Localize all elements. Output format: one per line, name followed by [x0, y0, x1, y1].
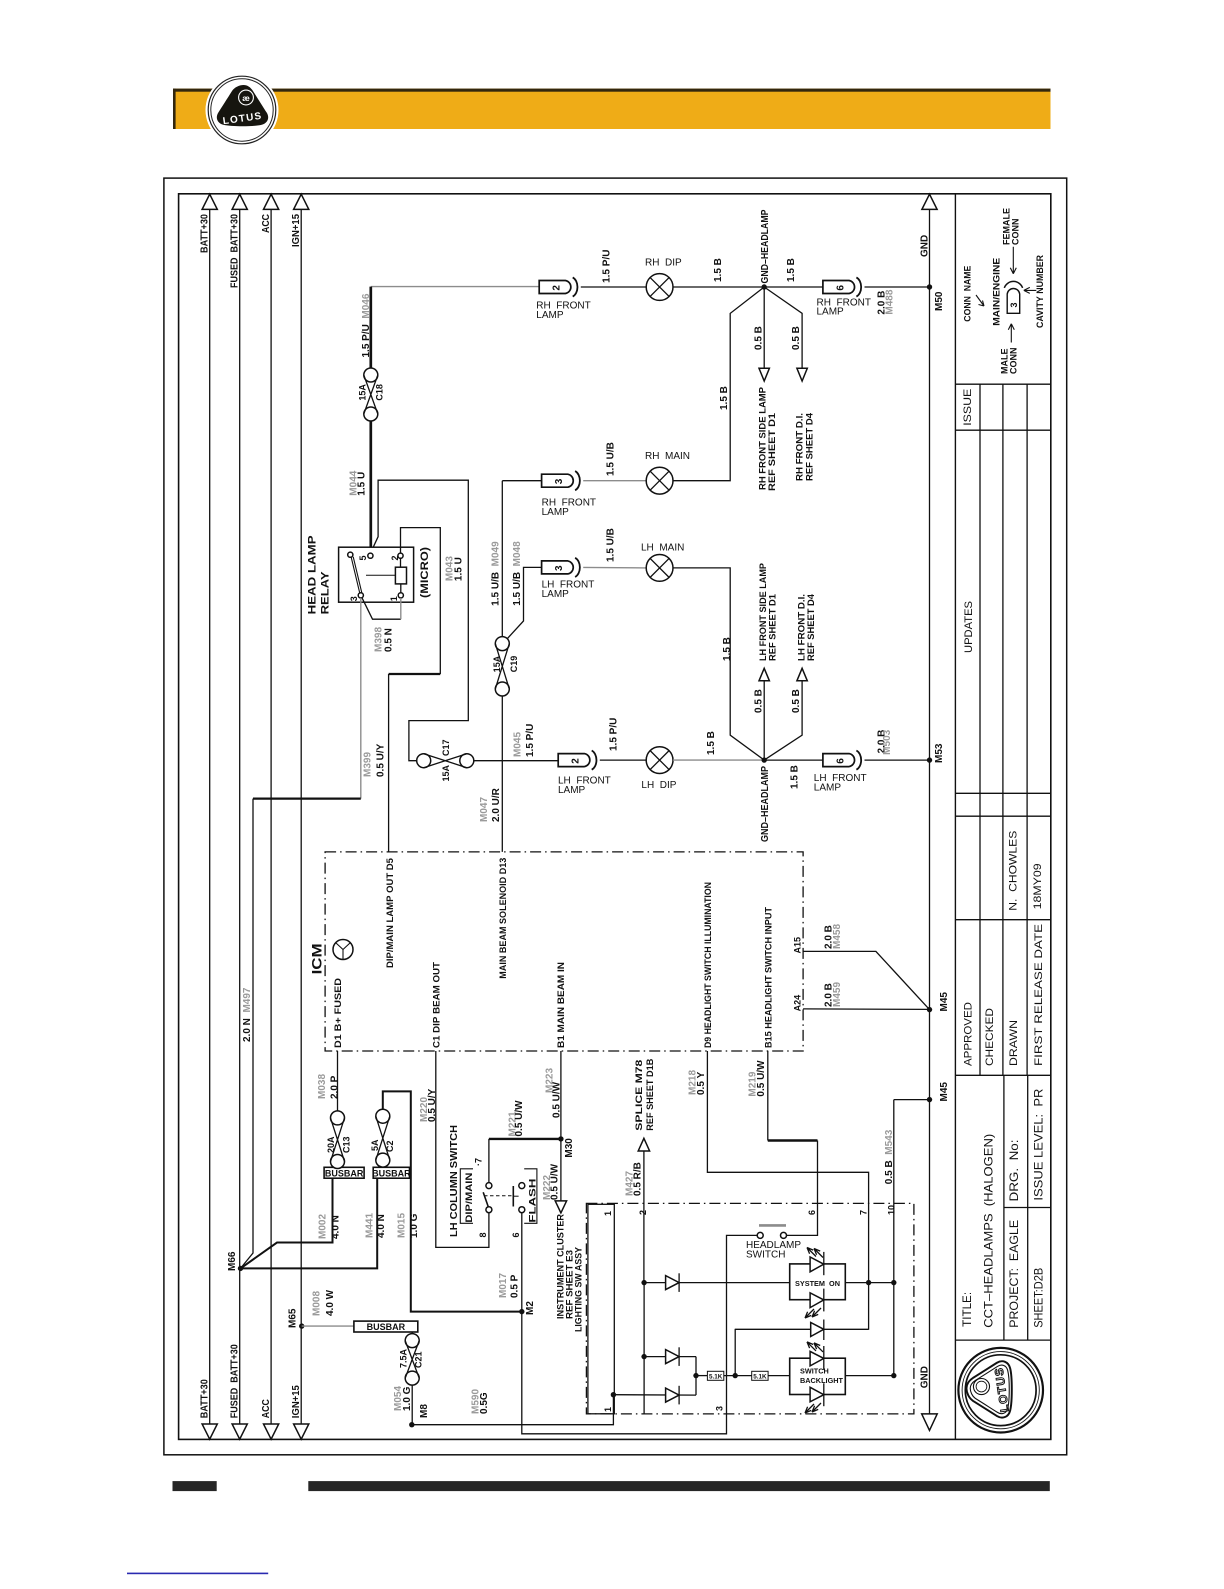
- svg-text:LAMP: LAMP: [817, 307, 845, 318]
- svg-text:M399: M399: [363, 752, 374, 777]
- GND top arrow: [922, 194, 937, 209]
- svg-text:M008: M008: [311, 1291, 322, 1316]
- svg-text:0.5 U/W: 0.5 U/W: [514, 1100, 525, 1137]
- svg-text:0.5G: 0.5G: [479, 1392, 490, 1414]
- arrow into instrument cluster: [555, 1201, 566, 1213]
- svg-text:0.5 B: 0.5 B: [791, 689, 802, 713]
- wire M017 flash pin6 to M2: [521, 1213, 523, 1312]
- svg-text:M458: M458: [832, 924, 843, 949]
- svg-text:1.5 B: 1.5 B: [722, 637, 733, 661]
- wire node to RH front DI ref: [764, 287, 802, 368]
- svg-text:·7: ·7: [473, 1158, 483, 1166]
- LED below SYSTEM ON: [810, 1293, 824, 1308]
- svg-text:1.5 B: 1.5 B: [706, 731, 717, 755]
- svg-text:1.5 B: 1.5 B: [719, 386, 730, 410]
- svg-text:RH MAIN: RH MAIN: [645, 451, 690, 462]
- svg-text:BUSBAR: BUSBAR: [372, 1168, 411, 1178]
- svg-text:0.5 U/W: 0.5 U/W: [756, 1060, 767, 1097]
- svg-text:C19: C19: [509, 656, 519, 673]
- cluster connector strip box: [588, 1204, 614, 1414]
- svg-text:1.5 U/B M048: 1.5 U/B M048: [512, 541, 523, 606]
- svg-text:1.5 U/B: 1.5 U/B: [606, 442, 617, 476]
- lamp RH DIP: [646, 274, 673, 301]
- fuse C21 7.5A: [411, 1332, 413, 1334]
- svg-text:BATT+30: BATT+30: [200, 214, 211, 253]
- lamp LH DIP: [646, 747, 673, 774]
- svg-text:2: 2: [552, 285, 563, 291]
- drawing inner border: [179, 194, 1051, 1440]
- svg-text:REF SHEET D4: REF SHEET D4: [806, 594, 816, 661]
- relay coil: [395, 567, 406, 584]
- svg-text:M45: M45: [939, 1082, 950, 1102]
- svg-text:BUSBAR: BUSBAR: [367, 1322, 406, 1332]
- arrow LH front DI: [797, 668, 807, 681]
- svg-text:M8: M8: [419, 1404, 430, 1418]
- node M30: [558, 1136, 563, 1141]
- svg-text:1.5 B: 1.5 B: [713, 258, 724, 282]
- svg-text:M038: M038: [317, 1074, 328, 1099]
- svg-text:10: 10: [887, 1205, 897, 1215]
- svg-text:M002: M002: [318, 1214, 329, 1239]
- svg-text:LAMP: LAMP: [542, 589, 570, 600]
- lotus roundel bottom: [958, 1348, 1043, 1433]
- wire pin10 M543: [894, 1099, 930, 1101]
- resistor 5.1K first: [696, 1375, 707, 1377]
- svg-text:M30: M30: [564, 1138, 575, 1158]
- svg-text:3: 3: [554, 565, 565, 571]
- svg-text:C2: C2: [385, 1140, 395, 1152]
- wire RH DIP to gnd node: [673, 286, 764, 288]
- node GND-HEADLAMP RH: [762, 284, 767, 289]
- svg-text:7: 7: [858, 1210, 868, 1215]
- svg-text:1: 1: [603, 1211, 613, 1216]
- svg-text:M047: M047: [479, 797, 490, 822]
- LED above SWITCH BACKLIGHT: [810, 1351, 824, 1366]
- svg-text:ISSUE LEVEL: PR: ISSUE LEVEL: PR: [1032, 1088, 1046, 1200]
- svg-text:8: 8: [478, 1232, 488, 1237]
- wire trunk M049: [501, 481, 503, 637]
- svg-text:BATT+30: BATT+30: [200, 1379, 211, 1418]
- wire node to RH front side lamp ref: [763, 287, 765, 368]
- svg-text:4.0 N: 4.0 N: [331, 1215, 342, 1239]
- lotus roundel top: [206, 74, 279, 147]
- power rail BATT+30: [209, 209, 211, 1424]
- svg-text:SWITCH: SWITCH: [800, 1366, 829, 1375]
- svg-text:CONN: CONN: [1009, 348, 1019, 375]
- svg-text:GND: GND: [919, 235, 930, 257]
- wire M046 horizontal to RH front lamp: [371, 286, 539, 288]
- node GND-HEADLAMP LH: [762, 757, 767, 762]
- wire M66 to busbar1: [241, 1178, 333, 1268]
- svg-text:HEAD LAMP: HEAD LAMP: [306, 535, 318, 614]
- diode row2: [641, 1354, 646, 1359]
- wire A24 to M45: [803, 1008, 929, 1011]
- wire M427 splice M78: [643, 1151, 645, 1283]
- names row: [980, 816, 1027, 1075]
- legend connector symbol: [1007, 288, 1020, 313]
- svg-text:REF SHEET D1B: REF SHEET D1B: [645, 1058, 655, 1131]
- svg-text:15A: 15A: [492, 655, 502, 672]
- svg-text:ACC: ACC: [261, 214, 272, 233]
- diode row1: [641, 1280, 646, 1285]
- connector RH front lamp 2: [539, 281, 571, 294]
- svg-text:15A: 15A: [358, 384, 368, 401]
- svg-text:D9 HEADLIGHT SWITCH ILLUMINATI: D9 HEADLIGHT SWITCH ILLUMINATION: [703, 882, 713, 1048]
- wire pin6 to headlamp switch: [767, 1051, 769, 1141]
- svg-text:20A: 20A: [326, 1136, 336, 1153]
- svg-text:DIP/MAIN: DIP/MAIN: [464, 1173, 474, 1223]
- wire conn6 to M50: [865, 286, 930, 288]
- svg-text:1.5 U: 1.5 U: [454, 557, 465, 581]
- svg-text:1: 1: [603, 1407, 613, 1412]
- svg-text:SYSTEM ON: SYSTEM ON: [795, 1279, 840, 1288]
- flash switch blade: [512, 1186, 514, 1207]
- arrow RH front side lamp: [759, 368, 769, 381]
- wire conn2 to RH DIP: [581, 286, 646, 288]
- fuse C13 20A: [331, 1111, 345, 1125]
- wire relay pin3 to pin1 link: [362, 598, 401, 619]
- fuse C2 5A: [376, 1109, 390, 1123]
- svg-text:1.5 P/U: 1.5 P/U: [602, 250, 613, 283]
- ICM lamp-fail symbol: [333, 940, 353, 960]
- drawing outer border: [164, 178, 1067, 1455]
- svg-text:1.5 B: 1.5 B: [786, 258, 797, 282]
- svg-text:C21: C21: [414, 1351, 424, 1368]
- svg-text:M2: M2: [525, 1301, 536, 1315]
- power rail ACC: [270, 209, 272, 1424]
- svg-text:M015: M015: [397, 1213, 408, 1238]
- svg-text:A24: A24: [793, 995, 803, 1012]
- svg-text:LIGHTING SW ASSY: LIGHTING SW ASSY: [573, 1247, 583, 1332]
- svg-text:FLASH: FLASH: [528, 1179, 538, 1223]
- svg-text:3: 3: [715, 1406, 725, 1411]
- svg-text:MAIN BEAM SOLENOID D13: MAIN BEAM SOLENOID D13: [498, 858, 508, 979]
- svg-text:LAMP: LAMP: [814, 783, 842, 794]
- svg-text:REF SHEET D1: REF SHEET D1: [767, 594, 777, 661]
- wire M2 to headlamp switch pin3: [522, 1235, 757, 1433]
- connector LH front lamp 3: [542, 561, 574, 574]
- svg-text:RH DIP: RH DIP: [645, 258, 682, 269]
- svg-text:BUSBAR: BUSBAR: [325, 1168, 364, 1178]
- svg-text:3: 3: [1009, 302, 1019, 307]
- wire pin7 feed from D9: [707, 1051, 868, 1330]
- headlamp switch contacts: [757, 1232, 763, 1238]
- wire M043 from relay pin5: [370, 480, 468, 761]
- svg-text:ISSUE: ISSUE: [962, 389, 974, 426]
- issue row: [955, 429, 1050, 431]
- svg-text:SHEET:D2B: SHEET:D2B: [1032, 1268, 1046, 1328]
- svg-text:7.5A: 7.5A: [398, 1348, 408, 1368]
- svg-text:6: 6: [807, 1210, 817, 1215]
- wire conn6 to M53: [865, 759, 930, 761]
- power rail FUSED BATT+30: [239, 209, 241, 1424]
- svg-text:2.0 P: 2.0 P: [330, 1075, 341, 1099]
- svg-text:LAMP: LAMP: [536, 310, 564, 321]
- svg-text:0.5 U/Y: 0.5 U/Y: [427, 1088, 438, 1122]
- SWITCH BACKLIGHT box: [790, 1358, 846, 1394]
- wire M008 to busbar3: [302, 1325, 354, 1327]
- wire node to LH front DI ref: [764, 681, 802, 760]
- wire M223 B1 to M30: [560, 1051, 562, 1139]
- fuse C19 15A: [495, 637, 509, 651]
- fuse C17 15A: [417, 754, 431, 768]
- svg-text:GND–HEADLAMP: GND–HEADLAMP: [760, 209, 771, 283]
- svg-text:6: 6: [835, 285, 846, 291]
- svg-text:M459: M459: [832, 982, 843, 1007]
- connector LH front lamp 6: [823, 754, 855, 767]
- svg-text:1.0 G: 1.0 G: [409, 1213, 420, 1238]
- svg-text:C13: C13: [341, 1136, 351, 1153]
- svg-text:6: 6: [835, 758, 846, 764]
- rail top arrow: [294, 194, 309, 209]
- wire SYSTEM ON right: [845, 1282, 894, 1284]
- DIP/MAIN bracket: [460, 1169, 473, 1224]
- svg-text:IGN+15: IGN+15: [291, 214, 302, 247]
- connector RH front lamp 6: [823, 281, 855, 294]
- relay pin 1: [398, 593, 403, 598]
- svg-text:ICM: ICM: [309, 943, 324, 974]
- svg-text:A15: A15: [793, 937, 803, 954]
- svg-text:1: 1: [389, 596, 399, 601]
- svg-text:M65: M65: [287, 1308, 298, 1328]
- arrow LH front side lamp: [759, 668, 769, 681]
- svg-text:1.5 U/B: 1.5 U/B: [606, 528, 617, 562]
- wire C13 to ICM D1: [337, 1051, 339, 1111]
- LED below SWITCH BACKLIGHT: [810, 1387, 824, 1402]
- svg-text:GND–HEADLAMP: GND–HEADLAMP: [760, 766, 771, 842]
- svg-text:5A: 5A: [370, 1139, 380, 1151]
- node M53: [927, 757, 932, 762]
- wire node to conn6 LH: [764, 759, 823, 761]
- rail bottom arrow: [264, 1424, 279, 1439]
- rail bottom arrow: [202, 1424, 217, 1439]
- node M45 lower: [927, 1097, 932, 1102]
- svg-text:B15 HEADLIGHT SWITCH INPUT: B15 HEADLIGHT SWITCH INPUT: [764, 907, 774, 1048]
- svg-text:CHECKED: CHECKED: [984, 1008, 996, 1066]
- svg-text:1.5 P/U M046: 1.5 P/U M046: [361, 293, 372, 357]
- svg-text:15A: 15A: [441, 764, 451, 781]
- svg-text:2.0 U/R: 2.0 U/R: [491, 787, 502, 822]
- wire M048 branch: [507, 567, 542, 639]
- vertical joining diodes: [695, 1357, 697, 1396]
- svg-text:0.5 U/W: 0.5 U/W: [551, 1081, 562, 1118]
- svg-text:0.5 B: 0.5 B: [753, 689, 764, 713]
- headlamp switch bar: [759, 1224, 786, 1227]
- rail bottom arrow: [232, 1424, 247, 1439]
- wire node to LH front side lamp ref: [763, 678, 765, 760]
- svg-text:1.5 U/B M049: 1.5 U/B M049: [491, 541, 502, 606]
- svg-text:5.1K: 5.1K: [753, 1374, 767, 1381]
- svg-text:N. CHOWLES: N. CHOWLES: [1008, 831, 1020, 911]
- busbar 2: [373, 1167, 409, 1178]
- svg-text:C1 DIP BEAM OUT: C1 DIP BEAM OUT: [432, 961, 442, 1048]
- arrow splice M78: [638, 1138, 649, 1151]
- svg-text:0.5 U/Y: 0.5 U/Y: [376, 743, 387, 777]
- node M65: [299, 1323, 304, 1328]
- rail top arrow: [232, 194, 247, 209]
- svg-text:LAMP: LAMP: [558, 785, 586, 796]
- svg-text:3: 3: [349, 596, 359, 601]
- diode row3: [611, 1392, 616, 1397]
- svg-text:TITLE:: TITLE:: [960, 1292, 974, 1327]
- title cells: [1004, 1075, 1028, 1340]
- node M50: [927, 284, 932, 289]
- wire M222 M30 to instrument cluster: [560, 1139, 562, 1201]
- wire node to conn6: [764, 286, 823, 288]
- svg-text:1.5 B: 1.5 B: [790, 765, 801, 789]
- busbar 3: [354, 1321, 418, 1332]
- svg-text:0.5 N: 0.5 N: [384, 628, 395, 652]
- rail bottom arrow: [294, 1424, 309, 1439]
- svg-text:1.5 U: 1.5 U: [357, 472, 368, 496]
- wire conn3 to RH MAIN: [583, 480, 646, 482]
- GND bottom arrow: [922, 1414, 938, 1431]
- svg-text:LH MAIN: LH MAIN: [641, 543, 684, 554]
- relay pin 5: [368, 553, 373, 558]
- svg-text:LAMP: LAMP: [542, 507, 570, 518]
- svg-text:æ: æ: [242, 93, 250, 103]
- svg-text:M66: M66: [227, 1251, 238, 1271]
- svg-text:GND: GND: [919, 1366, 930, 1388]
- small row: [980, 793, 1027, 816]
- svg-text:0.5 B: 0.5 B: [753, 326, 764, 350]
- rail top arrow: [202, 194, 217, 209]
- svg-text:DRG. No:: DRG. No:: [1007, 1140, 1021, 1202]
- svg-text:C18: C18: [374, 384, 384, 401]
- wire node to RH MAIN branch: [673, 287, 764, 481]
- svg-text:4.0 N: 4.0 N: [376, 1214, 387, 1238]
- node M66: [238, 1266, 243, 1271]
- svg-text:M53: M53: [934, 743, 945, 763]
- footer blue rule: [127, 1573, 268, 1575]
- node M2: [519, 1309, 524, 1314]
- svg-text:SWITCH: SWITCH: [746, 1249, 785, 1260]
- svg-text:M488: M488: [884, 289, 895, 314]
- SYSTEM ON box: [790, 1264, 846, 1300]
- svg-text:D1 B+ FUSED: D1 B+ FUSED: [333, 977, 343, 1048]
- svg-text:LH COLUMN SWITCH: LH COLUMN SWITCH: [449, 1125, 460, 1237]
- svg-text:SPLICE M78: SPLICE M78: [634, 1060, 644, 1131]
- wire M398 relay pin3 down: [360, 598, 362, 799]
- wire A15 to M45: [803, 951, 929, 1009]
- wire M590 M8 to cluster pin1: [412, 1395, 614, 1425]
- svg-text:MAIN/ENGINE: MAIN/ENGINE: [991, 258, 1001, 326]
- svg-text:2: 2: [390, 555, 400, 560]
- LED middle: [811, 1323, 824, 1337]
- svg-text:CONN: CONN: [1011, 219, 1021, 246]
- svg-text:M503: M503: [882, 729, 893, 754]
- svg-text:FUSED BATT+30: FUSED BATT+30: [230, 1344, 241, 1418]
- svg-text:(MICRO): (MICRO): [419, 547, 431, 598]
- LED above SYSTEM ON: [810, 1257, 824, 1272]
- svg-text:CONN NAME: CONN NAME: [962, 266, 972, 322]
- logo cell: [955, 1339, 1050, 1341]
- wire M221 pin7 to M30: [488, 1139, 490, 1183]
- relay pin 3: [358, 593, 363, 598]
- svg-text:RELAY: RELAY: [319, 571, 331, 615]
- svg-text:C17: C17: [441, 739, 451, 756]
- svg-text:DIP/MAIN LAMP OUT D5: DIP/MAIN LAMP OUT D5: [385, 858, 395, 968]
- wire M399 relay pin2 to ICM D5: [401, 528, 441, 674]
- svg-text:1.5 P/U: 1.5 P/U: [608, 718, 619, 751]
- svg-text:LH DIP: LH DIP: [641, 780, 676, 791]
- svg-text:5.1K: 5.1K: [709, 1374, 723, 1381]
- title column left edge: [954, 194, 956, 1440]
- svg-text:2: 2: [638, 1210, 648, 1215]
- svg-text:CCT–HEADLAMPS (HALOGEN): CCT–HEADLAMPS (HALOGEN): [981, 1134, 995, 1328]
- svg-text:PROJECT: EAGLE: PROJECT: EAGLE: [1007, 1220, 1021, 1328]
- wire C21 to M8: [411, 1385, 413, 1425]
- svg-text:M017: M017: [498, 1273, 509, 1298]
- svg-text:0.5 P: 0.5 P: [510, 1274, 521, 1298]
- connector LH front lamp 2: [558, 754, 590, 767]
- svg-text:1.5 P/U: 1.5 P/U: [525, 724, 536, 757]
- fuse C18 15A: [364, 368, 378, 382]
- flash contact bottom: [519, 1207, 525, 1213]
- svg-text:18MY09: 18MY09: [1032, 863, 1044, 909]
- svg-text:ACC: ACC: [261, 1399, 272, 1418]
- flash contact top: [519, 1183, 525, 1189]
- svg-text:0.5 R/B: 0.5 R/B: [632, 1162, 643, 1196]
- switch pin 8 contact: [486, 1207, 492, 1213]
- power rail IGN+15: [300, 209, 302, 1424]
- GND rail: [929, 209, 931, 1414]
- svg-text:4.0 W: 4.0 W: [325, 1289, 336, 1316]
- banner bar: [173, 89, 1051, 129]
- FLASH bracket: [524, 1169, 537, 1224]
- svg-text:M45: M45: [939, 992, 950, 1012]
- wire C17 to conn2 LH: [474, 760, 558, 762]
- wire trunk M044 thick: [369, 287, 372, 368]
- svg-text:0.5 U/W: 0.5 U/W: [550, 1163, 561, 1200]
- svg-text:UPDATES: UPDATES: [963, 601, 975, 653]
- footer long bar: [308, 1481, 1050, 1491]
- resistor 5.1K second: [724, 1375, 752, 1377]
- switch pin 7 contact: [486, 1183, 492, 1189]
- wire M66 to busbar2: [241, 1178, 378, 1268]
- arrow RH front DI: [797, 368, 807, 381]
- svg-text:IGN+15: IGN+15: [291, 1385, 302, 1418]
- wire conn2 to LH DIP: [600, 759, 646, 761]
- relay pin 2: [398, 553, 403, 558]
- wire SWITCH BACKLIGHT right: [845, 1375, 894, 1377]
- svg-text:2: 2: [571, 758, 582, 764]
- svg-text:FIRST RELEASE DATE: FIRST RELEASE DATE: [1033, 924, 1045, 1066]
- busbar 1: [324, 1167, 364, 1178]
- instrument cluster box: [586, 1203, 914, 1414]
- footer short bar: [173, 1481, 217, 1491]
- svg-text:6: 6: [511, 1232, 521, 1237]
- svg-text:M50: M50: [934, 291, 945, 311]
- wire main beam trunk D13: [501, 696, 503, 852]
- svg-text:CAVITY NUMBER: CAVITY NUMBER: [1035, 255, 1045, 328]
- wire M220 C1 to switch pin8: [436, 1051, 489, 1247]
- svg-text:0.5 B: 0.5 B: [791, 326, 802, 350]
- svg-text:APPROVED: APPROVED: [962, 1002, 974, 1066]
- relay blade 3-5: [348, 552, 353, 557]
- svg-text:M045: M045: [512, 732, 523, 757]
- svg-text:RH FRONT D.I.: RH FRONT D.I.: [795, 413, 805, 481]
- svg-text:M441: M441: [365, 1213, 376, 1238]
- dip/main blade: [483, 1192, 488, 1207]
- svg-text:2.0 N M497: 2.0 N M497: [242, 987, 253, 1042]
- updates table columns: [980, 384, 1027, 793]
- relay head lamp box: [339, 547, 414, 602]
- svg-text:0.5 Y: 0.5 Y: [696, 1071, 707, 1095]
- wire middle LED row: [734, 1329, 736, 1376]
- dashed link to flash: [484, 1195, 513, 1197]
- svg-text:3: 3: [554, 478, 565, 484]
